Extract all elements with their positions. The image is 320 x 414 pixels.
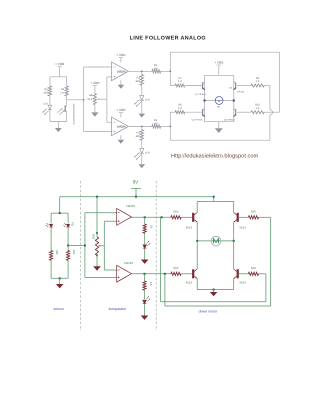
motor M1 [215,97,223,109]
transistor Q5 9013 [192,213,197,223]
wire to U4 minus [104,269,116,271]
resistor 33K [67,251,70,261]
resistor R9 [251,84,264,87]
wire cross B vertical [270,217,272,306]
power +VDD trimpot [90,81,100,85]
resistor R2 [65,86,68,96]
svg-text:R1: R1 [44,88,48,91]
wire vdd stub [59,67,61,77]
title text [130,35,206,41]
resistor 560 sensor [50,251,53,261]
wire R10 right lead [264,111,279,113]
wire bridge top rail2 [197,200,234,202]
wire Q6 collector [233,201,235,212]
wire sensor left branch upper [49,77,51,86]
resistor R3 [140,75,143,86]
svg-text:PD: PD [70,222,74,226]
wire sensor top rail [50,76,67,78]
pin U4 plus [118,276,120,278]
svg-text:R2: R2 [61,88,65,91]
wire U2 output [129,125,152,127]
ground LED3 [139,164,146,168]
svg-text:Q1 TIP41A: Q1 TIP41A [195,93,206,96]
ground bridge [215,128,223,133]
node rail bridge junction [213,196,215,198]
transistor Q4 TIP41A [234,108,237,117]
wire R1 to LED [49,96,51,105]
svg-text:+ VDD: + VDD [116,108,126,112]
LED D4 sensor [46,223,53,227]
wire U1 gnd stub [120,80,122,85]
label U4 LM324 [124,261,134,265]
wire input vertical [84,213,86,278]
wire Q7 emitter [196,279,198,290]
url text [171,153,259,160]
wire bridge feed stub [213,197,215,202]
svg-text:560: 560 [55,250,59,255]
wire 1K to LED lower [144,290,146,299]
wire to U2 noninverting input [84,131,113,133]
wire box to R7 [170,85,175,87]
wire main rail [60,196,214,198]
wire 560 to Q7 base [181,273,192,275]
svg-text:560: 560 [173,266,178,270]
pin U2 minus [114,121,116,123]
label U3 LM324 [126,204,136,208]
wire trimpot vdd stub [94,86,96,94]
svg-text:50K: 50K [92,234,96,239]
label R7 [178,77,182,83]
svg-text:9013: 9013 [186,225,193,229]
wire Q8 emitter [233,279,235,290]
svg-text:Q2 TIP41A: Q2 TIP41A [192,118,203,121]
resistor 560 lower-right [248,272,258,275]
svg-text:+ VDD: + VDD [214,61,224,65]
node pot top pin [96,232,98,234]
photodiode PD [63,223,69,227]
label Q7 9013 [186,281,193,285]
node sensor bottom junction [59,277,61,279]
label 560 sensor [55,250,59,255]
ground U1 [118,85,125,89]
svg-text:9013: 9013 [239,281,246,285]
label section sensor [53,307,64,311]
ground pot [93,266,101,270]
power +VDD sensor [55,62,65,66]
wire cross B right [259,216,271,218]
svg-text:LED: LED [43,103,48,106]
resistor R10 [251,111,264,114]
node motor left [204,100,206,102]
label Q1 [195,93,206,96]
node upper drive junction [170,71,172,73]
resistor 560 upper-right [248,216,258,219]
wire resistor to bottom [50,260,52,278]
transistor Q8 9013 [234,269,239,279]
svg-text:33K: 33K [72,250,76,255]
wire R6 to bridge [161,125,171,127]
resistor 560 upper-left [171,216,181,219]
wire wiper2 [101,245,104,247]
svg-text:330: 330 [43,91,48,94]
label R5 [153,64,158,70]
svg-text:1 K: 1 K [256,107,260,110]
phototransistor Q sensor [57,105,66,115]
node U3 out j2 [161,216,163,218]
ground chain lower [141,316,149,320]
power 9V [131,179,141,196]
resistor R6 [152,125,161,128]
wire bridge left vertical [204,75,206,121]
resistor 1K upper [143,224,146,233]
resistor R4 [140,130,143,141]
node motor left2 [196,240,198,242]
wire sensor drop [59,197,61,213]
op-amp U3 LM324 [117,209,132,226]
wire pd to junction [67,228,69,251]
label 560 ur [251,210,256,214]
resistor R1 [48,86,51,96]
wire LED to gnd lower [144,304,146,316]
wire bridge gnd stub2 [213,290,215,293]
ground sensor2 [56,284,64,288]
svg-text:LM324: LM324 [124,261,134,265]
svg-text:330: 330 [135,135,140,138]
transistor Q6 9013 [234,213,239,223]
svg-text:1K: 1K [149,282,153,286]
wire U1 vdd stub [120,58,122,63]
svg-text:Http://edukasielektro.blogspot: Http://edukasielektro.blogspot.com [171,153,259,160]
wire U2 vdd stub [120,113,122,117]
label Q5 9013 [186,225,193,229]
resistor R5 [152,70,161,73]
label R2 value [60,88,64,95]
wire R5 to bridge [161,70,171,72]
resistor 560 lower-left [171,272,181,275]
wire Q7 collector [196,241,198,269]
wire R2 to phototransistor [66,96,68,105]
svg-text:9V: 9V [133,179,140,184]
resistor R7 [175,84,185,87]
label 1K lower [149,282,153,286]
svg-text:330: 330 [153,67,158,70]
label 1K upper [149,225,153,229]
wire R10 to Q4 base [237,111,251,113]
wire bridge right vertical [233,75,235,121]
wire R8 to Q2 base [185,111,202,113]
svg-text:LINE FOLLOWER ANALOG: LINE FOLLOWER ANALOG [130,35,206,41]
wire sensor gnd stub [59,278,61,284]
wire pot drop [96,197,98,237]
wire cross B left vertical [164,274,166,306]
wire Q6 base lead [239,216,249,218]
wire bridge bottom rail [205,121,234,123]
resistor R8 [175,111,185,114]
node U4 out j1 [144,273,146,275]
label Q6 9013 [239,225,246,229]
label R1 value [43,88,48,95]
wire Q8 collector [233,241,235,269]
wire sensor output [67,99,84,101]
op-amp U4 LM324 [117,265,132,282]
wire sensor bottom rail [50,120,67,122]
wire to U3 plus [104,220,116,222]
svg-text:1K: 1K [149,225,153,229]
wire bridge bottom rail2 [197,289,234,291]
wire cross A horizontal [161,301,266,303]
label Q4 [224,118,235,121]
svg-text:LED: LED [145,152,150,155]
label 33K [72,250,76,255]
node lower drive junction [170,126,172,128]
wire motor rail [205,100,234,102]
svg-text:+ VDD: + VDD [55,62,65,66]
pin U3 plus [118,220,120,222]
label LED3 [145,152,150,155]
node sensor-comparator junction [83,99,85,101]
node U3 out j1 [144,216,146,218]
svg-text:Q4 TIP41A: Q4 TIP41A [224,118,235,121]
pin U3 minus [118,212,120,214]
label LED2 [145,99,150,102]
svg-text:sensor: sensor [53,307,64,311]
svg-text:1 K: 1 K [256,80,260,83]
label 560 ll [173,266,178,270]
wire right vertical with hop [270,86,273,141]
wire R9 right lead [264,85,270,87]
wire trimpot to gnd [94,105,96,113]
wire U2 gnd stub [120,135,122,140]
label Q3 [229,87,245,94]
LED D1 sensor emitter [42,105,51,115]
LED D3 indicator [134,148,144,159]
ground LED2 [139,114,146,118]
wire U4 output [132,273,171,275]
label section komparator [109,307,128,311]
wire Q5 collector [196,201,198,212]
svg-text:LM324: LM324 [117,69,126,73]
transistor Q2 TIP41A [202,108,205,117]
wire R7 to Q1 base [185,85,202,87]
wire cross A right [259,273,266,275]
transistor Q1 TIP41A [202,81,205,90]
wire top edge [170,51,279,53]
wire R9 to Q3 base [237,85,251,87]
label Q8 9013 [239,281,246,285]
potentiometer 50K [95,237,101,256]
wire 33K to bottom [67,260,69,278]
label R10 [255,104,260,110]
wire phototransistor to bottom [66,113,68,122]
pin U1 minus [114,66,116,68]
pin U2 plus [114,131,116,133]
pin U4 minus [118,269,120,271]
wire right vertical tall [279,52,281,112]
ground U2 [118,140,125,144]
wire wiper [101,98,107,100]
node pd junction [67,245,69,247]
svg-text:560: 560 [251,210,256,214]
label LED [43,103,48,106]
svg-text:LED: LED [145,99,150,102]
node U2 output junction [141,126,143,128]
wire 560 to Q5 base [181,216,192,218]
power +VDD U1 [116,53,126,57]
wire to U4 plus [85,276,117,278]
wire sensor right branch upper [66,77,68,86]
wire sensor top rail2 [51,212,68,214]
node rail 9V junction [135,196,137,198]
svg-text:330: 330 [135,80,140,83]
svg-text:560: 560 [251,266,256,270]
svg-text:LM324: LM324 [126,204,136,208]
wire LED to bottom [49,110,51,122]
svg-text:R4: R4 [136,132,140,135]
wire pot to gnd [96,255,98,266]
node rail pot junction [96,196,98,198]
op-amp U2 LM324 [112,117,129,136]
potentiometer HB 50K [93,94,100,105]
wire pd branch upper [67,213,69,223]
svg-text:HB: HB [89,94,93,97]
wire to U1 inverting input [84,66,113,68]
label 560 ul [173,210,178,214]
dashed separator komparator-driver [155,181,157,331]
wire Q5 emitter [196,222,198,241]
wire sensor signal [68,245,85,247]
wire box to R8 [170,111,175,113]
node sensor top junction [59,212,61,214]
power +VDD bridge [214,61,224,65]
label section driver motor [199,310,219,314]
resistor 1K lower [143,281,146,290]
label HB 50K [87,94,92,101]
wire lower-left vertical [169,112,171,140]
wire to R4 [141,126,143,129]
wire LED2 to gnd [141,100,143,113]
wire U1 output [129,70,152,72]
wire LED3 to gnd [141,153,143,164]
node bridge gnd junction [213,289,215,291]
LED D6 indicator [143,296,150,303]
wire R3 to LED2 [141,85,143,95]
wire led branch upper [50,213,52,223]
wire to U1 noninverting [107,76,113,78]
svg-text:330: 330 [153,122,158,125]
transistor Q7 9013 [192,269,197,279]
label 50K [92,234,96,239]
node motor right2 [233,240,235,242]
svg-text:1 K: 1 K [60,91,64,94]
power +VDD U2 [116,108,126,112]
wire U3 output [132,216,171,218]
wire bottom edge [170,139,270,141]
op-amp U1 LM324 [112,62,129,81]
wire sensor bottom rail2 [51,277,68,279]
node input junction [84,245,86,247]
svg-text:driver motor: driver motor [199,310,219,314]
wire LED to gnd upper [144,249,146,260]
svg-text:560: 560 [173,210,178,214]
LED D5 indicator [143,241,150,248]
wire vertical to op-amp inputs [83,67,85,132]
label R9 [256,77,260,83]
LED D2 indicator [134,95,144,106]
ground chain upper [141,260,149,264]
label 560 lr [251,266,256,270]
label R8 [178,104,182,110]
wire to U3 minus [85,212,117,214]
wire cross B horizontal [165,305,271,307]
svg-text:+ VDD: + VDD [116,53,126,57]
label PD [70,222,74,226]
svg-text:TIP41A: TIP41A [237,91,245,94]
node motor right [233,100,235,102]
svg-text:R3: R3 [136,77,140,80]
wire bridge top rail [205,74,234,76]
label R6 [153,119,158,125]
label R4 [135,132,140,139]
wire bridge gnd stub [218,122,220,129]
node pot bottom pin [96,254,98,256]
motor M2 [211,236,221,246]
svg-text:9013: 9013 [239,225,246,229]
svg-text:50 K: 50 K [87,98,92,101]
label Q2 [192,118,203,121]
wire bridge vdd stub [218,66,220,76]
svg-text:PHOTOTRANSISTOR: PHOTOTRANSISTOR [72,104,75,125]
wire cross A vertical [265,274,267,302]
ground trimpot [91,112,98,116]
label U1 LM324 [117,69,126,73]
wire to 1K lower [144,274,146,281]
label PHOTOTRANSISTOR [72,104,75,125]
svg-text:9013: 9013 [186,281,193,285]
label R3 [135,77,140,84]
pin U1 plus [114,76,116,78]
wire to R3 [141,71,143,74]
node U4 out j2 [164,273,166,275]
dashed separator sensor-komparator [79,181,81,331]
wire vertical reference [106,77,108,122]
node U1 output junction [141,71,143,73]
ground bridge2 [210,292,218,296]
svg-text:1 K: 1 K [178,107,182,110]
wire Q8 base lead [239,273,249,275]
wire cross A left vertical [160,217,162,301]
transistor Q3 TIP41A [234,81,237,90]
wire to U2 inverting [107,121,113,123]
wire ref vertical [103,221,105,270]
svg-text:komparator: komparator [109,307,128,311]
svg-text:LM324: LM324 [117,124,126,128]
ground sensor [55,128,62,132]
wire gnd stub sensor [57,121,59,128]
svg-text:1 K: 1 K [178,80,182,83]
wire Q6 emitter [233,222,235,241]
wire motor rail2 [197,240,234,242]
svg-text:+ VDD: + VDD [90,81,100,85]
label U2 LM324 [117,124,126,128]
wire upper-left vertical [169,52,171,85]
wire to 1K upper [144,217,146,224]
wire led to resistor [50,228,52,251]
wire R4 to LED3 [141,140,143,148]
wire 1K to LED upper [144,233,146,244]
